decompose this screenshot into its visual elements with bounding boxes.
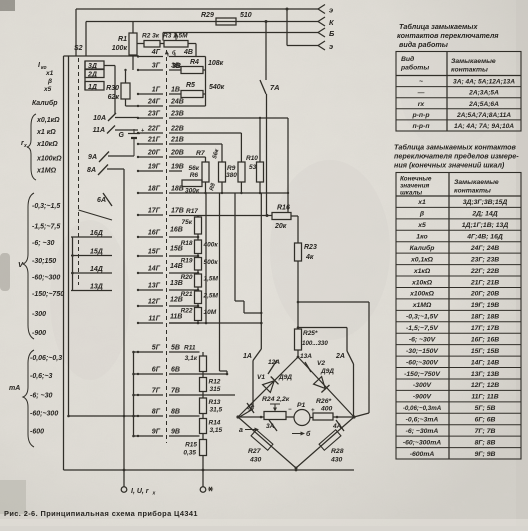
svg-text:23Г: 23Г: [147, 111, 161, 118]
svg-text:430: 430: [330, 457, 343, 464]
svg-text:2А;5А;6А: 2А;5А;6А: [468, 101, 499, 108]
svg-text:4В: 4В: [183, 49, 193, 56]
svg-text:1Д: 1Д: [88, 84, 97, 91]
svg-text:R7: R7: [196, 150, 206, 157]
svg-text:х: х: [152, 491, 156, 497]
svg-text:R10: R10: [246, 155, 258, 162]
svg-text:22Г: 22Г: [147, 126, 161, 133]
svg-text:-0,3;~1,5: -0,3;~1,5: [32, 203, 60, 210]
svg-text:б: б: [306, 430, 311, 438]
svg-text:18Г: 18Г: [148, 186, 161, 193]
svg-text:4Г;4В; 16Д: 4Г;4В; 16Д: [466, 234, 503, 241]
svg-text:R1: R1: [118, 36, 127, 43]
svg-text:R26*: R26*: [316, 398, 331, 405]
svg-text:2А: 2А: [335, 353, 345, 360]
svg-text:3В: 3В: [172, 63, 181, 70]
svg-text:х100кΩ: х100кΩ: [36, 156, 62, 163]
svg-text:х1: х1: [417, 199, 426, 206]
svg-text:3А: 3А: [266, 423, 275, 430]
svg-text:11Г: 11Г: [148, 316, 160, 323]
svg-text:62к: 62к: [108, 94, 120, 101]
svg-text:2А;5А;7А;8А;11А: 2А;5А;7А;8А;11А: [456, 112, 511, 119]
svg-text:24Г; 24В: 24Г; 24В: [470, 245, 499, 252]
svg-text:-6; ~30mA: -6; ~30mA: [406, 428, 439, 435]
svg-text:53: 53: [249, 164, 257, 171]
svg-text:R22: R22: [181, 308, 193, 315]
svg-text:Замыкаемые: Замыкаемые: [454, 179, 499, 186]
svg-text:19Г; 19В: 19Г; 19В: [471, 302, 499, 309]
svg-text:Калибр: Калибр: [32, 99, 58, 107]
svg-text:11В: 11В: [170, 314, 182, 321]
svg-text:Р1: Р1: [297, 402, 306, 409]
svg-text:-0,6;~3: -0,6;~3: [30, 373, 52, 380]
svg-text:15Д: 15Д: [90, 249, 103, 256]
svg-text:-30;150: -30;150: [32, 258, 56, 265]
svg-text:-6; ~30V: -6; ~30V: [409, 336, 437, 343]
svg-text:14Д: 14Д: [90, 266, 103, 273]
svg-text:х1МΩ: х1МΩ: [36, 168, 57, 175]
svg-text:V1: V1: [257, 374, 265, 381]
svg-text:2А;3А;5А: 2А;3А;5А: [468, 90, 499, 97]
svg-text:R13: R13: [209, 399, 221, 406]
svg-text:р-п-р: р-п-р: [412, 112, 430, 119]
svg-text:9Г; 9В: 9Г; 9В: [475, 451, 496, 458]
svg-text:-900V: -900V: [413, 394, 433, 401]
svg-text:2,5М: 2,5М: [203, 293, 219, 300]
svg-text:21В: 21В: [170, 137, 184, 144]
svg-text:работы: работы: [400, 64, 429, 72]
svg-text:х0,1кΩ: х0,1кΩ: [36, 117, 60, 124]
svg-text:4к: 4к: [305, 254, 314, 261]
svg-text:S2: S2: [74, 45, 83, 52]
svg-text:11Г; 11В: 11Г; 11В: [471, 394, 498, 401]
svg-text:8Г; 8В: 8Г; 8В: [475, 439, 496, 446]
svg-text:х1 кΩ: х1 кΩ: [36, 129, 56, 136]
svg-text:-6; ~30: -6; ~30: [30, 393, 52, 400]
svg-text:Б: Б: [329, 29, 335, 38]
svg-text:х0,1кΩ: х0,1кΩ: [410, 256, 434, 263]
svg-text:шкалы: шкалы: [400, 190, 423, 197]
svg-text:-600mA: -600mA: [410, 451, 435, 458]
svg-text:контактов переключателя: контактов переключателя: [397, 31, 499, 40]
svg-text:R29: R29: [201, 12, 214, 19]
svg-text:3Г: 3Г: [152, 63, 161, 70]
svg-text:24Г: 24Г: [147, 99, 161, 106]
svg-text:20Г; 20В: 20Г; 20В: [470, 291, 499, 298]
svg-text:13А: 13А: [300, 353, 312, 360]
svg-text:13В: 13В: [170, 280, 183, 287]
svg-text:1ко: 1ко: [416, 234, 427, 241]
svg-text:х5: х5: [43, 86, 52, 93]
svg-text:17Г; 17В: 17Г; 17В: [471, 325, 499, 332]
svg-text:контакты: контакты: [451, 67, 488, 74]
svg-text:вида работы: вида работы: [399, 40, 449, 49]
svg-text:14Г; 14В: 14Г; 14В: [471, 359, 499, 366]
svg-text:I, U, r: I, U, r: [131, 488, 150, 495]
svg-text:R6: R6: [190, 172, 199, 179]
svg-text:8А: 8А: [87, 167, 96, 174]
svg-text:Д9Д: Д9Д: [278, 374, 292, 381]
svg-text:10А: 10А: [93, 115, 106, 122]
svg-text:4Г: 4Г: [151, 49, 161, 56]
svg-text:п-р-п: п-р-п: [413, 123, 431, 130]
svg-text:22В: 22В: [170, 126, 184, 133]
svg-text:β: β: [419, 211, 424, 218]
svg-text:14Г: 14Г: [148, 266, 161, 273]
svg-text:-300V: -300V: [413, 382, 433, 389]
svg-text:-6; ~30: -6; ~30: [32, 240, 54, 247]
svg-text:13Д: 13Д: [90, 284, 103, 291]
svg-text:-0,06;~0,3: -0,06;~0,3: [30, 355, 62, 362]
svg-text:х1МΩ: х1МΩ: [412, 302, 432, 309]
svg-text:-60;~300V: -60;~300V: [406, 359, 439, 366]
svg-text:12Г; 12В: 12Г; 12В: [471, 382, 499, 389]
svg-text:5Г; 5В: 5Г; 5В: [475, 405, 496, 412]
svg-text:-1,5;~7,5V: -1,5;~7,5V: [406, 325, 439, 332]
svg-text:R30: R30: [106, 85, 119, 92]
svg-text:R11: R11: [184, 345, 196, 352]
svg-text:9Г: 9Г: [152, 429, 161, 436]
svg-text:8В: 8В: [171, 409, 180, 416]
svg-text:4А: 4А: [332, 423, 342, 430]
svg-text:1А; 4А; 7А; 9А;10А: 1А; 4А; 7А; 9А;10А: [454, 123, 514, 130]
svg-text:7Г; 7В: 7Г; 7В: [475, 428, 496, 435]
svg-text:23Г; 23В: 23Г; 23В: [470, 256, 499, 263]
svg-text:20В: 20В: [170, 150, 184, 157]
svg-text:Д9Д: Д9Д: [320, 368, 334, 375]
svg-text:6А: 6А: [97, 197, 106, 204]
svg-text:31,5: 31,5: [210, 407, 223, 414]
svg-text:12В: 12В: [170, 297, 183, 304]
svg-text:15Г: 15Г: [148, 249, 161, 256]
svg-text:3,15: 3,15: [210, 427, 223, 434]
svg-text:17Г: 17Г: [148, 208, 161, 215]
svg-text:-60;~300: -60;~300: [30, 411, 58, 418]
svg-text:540к: 540к: [209, 84, 225, 91]
svg-text:β: β: [47, 78, 52, 85]
svg-text:16Г; 16В: 16Г; 16В: [471, 336, 499, 343]
svg-text:300к: 300к: [185, 188, 200, 195]
svg-text:0,35: 0,35: [183, 450, 196, 457]
svg-text:R9: R9: [227, 165, 236, 172]
svg-text:23В: 23В: [170, 111, 184, 118]
svg-text:R4: R4: [190, 59, 199, 66]
svg-text:400: 400: [320, 406, 333, 413]
svg-text:Вид: Вид: [401, 55, 414, 63]
svg-text:3Д;3Г;3В;15Д: 3Д;3Г;3В;15Д: [463, 199, 508, 206]
svg-text:7Г: 7Г: [152, 388, 161, 395]
svg-text:R17: R17: [186, 208, 198, 215]
svg-text:-60;~300mA: -60;~300mA: [403, 439, 441, 446]
svg-text:7А: 7А: [270, 83, 280, 92]
svg-text:ния (конечных значений шкал): ния (конечных значений шкал): [394, 161, 505, 170]
svg-text:15В: 15В: [170, 246, 183, 253]
svg-text:значения: значения: [400, 183, 429, 190]
svg-text:15Г; 15В: 15Г; 15В: [471, 348, 499, 355]
svg-text:20к: 20к: [274, 223, 287, 230]
svg-text:3А; 4А; 5А;12А;13А: 3А; 4А; 5А;12А;13А: [453, 79, 515, 86]
svg-text:R25*: R25*: [303, 330, 318, 337]
svg-text:-1,5;~7,5: -1,5;~7,5: [32, 224, 60, 231]
svg-text:16Г: 16Г: [148, 230, 161, 237]
svg-text:-150;~750V: -150;~750V: [404, 371, 441, 378]
svg-text:21Г: 21Г: [147, 137, 161, 144]
svg-text:6Г; 6В: 6Г; 6В: [475, 416, 496, 423]
svg-text:х10кΩ: х10кΩ: [36, 141, 58, 148]
svg-text:Таблица замыкаемых контактов: Таблица замыкаемых контактов: [394, 143, 517, 152]
svg-text:9В: 9В: [171, 429, 180, 436]
svg-text:100...330: 100...330: [302, 340, 328, 347]
svg-text:380: 380: [226, 172, 237, 179]
svg-text:18Г; 18В: 18Г; 18В: [471, 314, 499, 321]
svg-text:13Г; 13В: 13Г; 13В: [471, 371, 499, 378]
svg-text:24В: 24В: [170, 99, 184, 106]
svg-text:75к: 75к: [181, 219, 192, 226]
svg-text:R16: R16: [277, 205, 290, 212]
svg-text:-0,3;~1,5V: -0,3;~1,5V: [406, 314, 439, 321]
svg-text:х100кΩ: х100кΩ: [409, 291, 435, 298]
svg-text:э: э: [329, 6, 333, 15]
svg-text:9А: 9А: [88, 154, 97, 161]
svg-text:6Г: 6Г: [152, 367, 161, 374]
svg-text:а: а: [239, 427, 243, 434]
svg-text:14В: 14В: [170, 263, 183, 270]
svg-text:510: 510: [240, 12, 252, 19]
svg-text:7В: 7В: [171, 388, 180, 395]
svg-text:Замыкаемые: Замыкаемые: [451, 58, 496, 65]
svg-text:17В: 17В: [171, 208, 184, 215]
svg-text:16Д: 16Д: [90, 230, 103, 237]
svg-text:1В: 1В: [171, 87, 180, 94]
svg-text:-300: -300: [32, 311, 46, 318]
svg-text:Таблица замыкаемых: Таблица замыкаемых: [399, 22, 478, 31]
svg-text:х5: х5: [417, 222, 426, 229]
svg-text:-30;~150V: -30;~150V: [406, 348, 439, 355]
svg-text:1А: 1А: [243, 353, 252, 360]
svg-text:22Г; 22В: 22Г; 22В: [470, 268, 499, 275]
svg-text:8Г: 8Г: [152, 409, 161, 416]
svg-text:переключателя пределов измере-: переключателя пределов измере-: [394, 152, 519, 161]
svg-text:1Г: 1Г: [152, 87, 161, 94]
svg-text:-150;~750: -150;~750: [32, 291, 64, 298]
svg-text:5Г: 5Г: [152, 345, 161, 352]
svg-text:х1кΩ: х1кΩ: [413, 268, 431, 275]
svg-text:6В: 6В: [171, 367, 180, 374]
svg-text:V2: V2: [317, 360, 325, 367]
svg-text:-0,06;~0,3mA: -0,06;~0,3mA: [403, 405, 442, 412]
svg-text:R14: R14: [209, 420, 221, 427]
svg-text:315: 315: [210, 386, 221, 393]
svg-text:х10кΩ: х10кΩ: [411, 279, 433, 286]
svg-text:430: 430: [249, 457, 262, 464]
svg-text:-600: -600: [30, 429, 44, 436]
svg-text:21Г; 21В: 21Г; 21В: [470, 279, 499, 286]
svg-text:-900: -900: [32, 330, 46, 337]
svg-text:1Д;1Г;1В; 13Д: 1Д;1Г;1В; 13Д: [462, 222, 509, 229]
svg-text:R2 3к: R2 3к: [142, 33, 160, 40]
svg-text:13Г: 13Г: [148, 283, 161, 290]
svg-text:—: —: [417, 90, 425, 97]
svg-text:х1: х1: [45, 70, 54, 77]
svg-text:20Г: 20Г: [147, 150, 161, 157]
svg-text:R23: R23: [304, 244, 317, 251]
svg-text:11А: 11А: [93, 127, 105, 134]
svg-text:100к: 100к: [112, 45, 128, 52]
svg-text:−: −: [288, 407, 292, 413]
svg-text:108к: 108к: [208, 60, 224, 67]
svg-text:контакты: контакты: [454, 188, 491, 195]
svg-text:16В: 16В: [170, 227, 183, 234]
svg-text:G: G: [119, 132, 125, 139]
svg-text:56к: 56к: [188, 165, 199, 172]
svg-text:3,1к: 3,1к: [185, 355, 198, 362]
svg-text:Рис. 2-6. Принципиальная схе: Рис. 2-6. Принципиальная схема прибора Ц…: [4, 509, 198, 518]
svg-text:Конечные: Конечные: [400, 176, 432, 183]
svg-text:mA: mA: [9, 385, 20, 392]
svg-text:19Г: 19Г: [148, 164, 161, 171]
svg-text:R5: R5: [186, 82, 195, 89]
svg-text:12Г: 12Г: [148, 299, 161, 306]
svg-text:Калибр: Калибр: [410, 244, 435, 252]
svg-text:19В: 19В: [171, 164, 184, 171]
svg-text:2Д: 2Д: [87, 72, 97, 79]
svg-text:400к: 400к: [203, 242, 219, 249]
svg-text:э: э: [329, 42, 333, 51]
svg-text:~: ~: [419, 79, 423, 86]
svg-text:R24 2,2к: R24 2,2к: [262, 396, 290, 403]
svg-text:R27: R27: [248, 448, 262, 455]
svg-text:R12: R12: [209, 379, 221, 386]
svg-text:х: х: [23, 143, 27, 149]
svg-text:R15: R15: [185, 442, 197, 449]
svg-text:2Д; 14Д: 2Д; 14Д: [471, 211, 497, 218]
svg-text:-0,6;~3mA: -0,6;~3mA: [406, 416, 439, 423]
svg-text:R28: R28: [331, 448, 344, 455]
svg-text:-60;~300: -60;~300: [32, 275, 60, 282]
svg-text:5В: 5В: [171, 345, 180, 352]
